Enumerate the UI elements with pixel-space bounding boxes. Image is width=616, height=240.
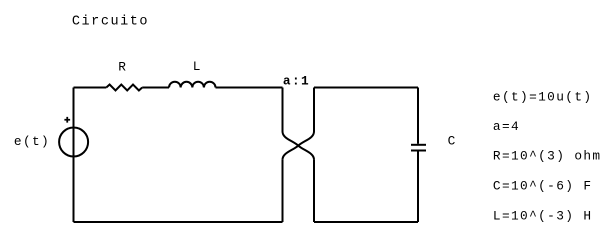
transformer primary top lead — [282, 88, 284, 132]
transformer secondary bottom lead — [313, 160, 315, 222]
svg-text:a:1: a:1 — [283, 74, 310, 89]
wire right vertical above capacitor — [417, 88, 419, 144]
inductor L — [169, 82, 216, 88]
voltage source e(t) — [59, 128, 88, 157]
transformer primary bottom lead — [282, 160, 284, 222]
transformer crossing curve right-top to left-bottom — [283, 132, 315, 160]
svg-text:C=10^(-6) F: C=10^(-6) F — [493, 179, 593, 194]
wire between L and transformer primary — [216, 87, 283, 89]
wire bottom of left loop — [74, 221, 283, 223]
wire top of right loop — [314, 87, 418, 89]
svg-text:R=10^(3) ohm: R=10^(3) ohm — [493, 149, 602, 164]
polarity plus sign — [64, 117, 70, 123]
svg-text:L=10^(-3) H: L=10^(-3) H — [493, 208, 593, 223]
svg-text:e(t)=10u(t): e(t)=10u(t) — [493, 89, 593, 104]
svg-text:a=4: a=4 — [493, 119, 520, 134]
svg-text:Circuito: Circuito — [72, 14, 149, 29]
wire right vertical below capacitor — [417, 152, 419, 223]
wire bottom of right loop — [314, 221, 418, 223]
capacitor C plate bottom — [411, 150, 426, 152]
transformer secondary top lead — [313, 88, 315, 132]
svg-text:C: C — [448, 134, 457, 149]
svg-text:L: L — [193, 59, 202, 74]
resistor R — [106, 85, 142, 91]
wire between R and L — [142, 87, 169, 89]
svg-text:e(t): e(t) — [14, 134, 50, 149]
wire left vertical (source branch) — [73, 88, 75, 223]
capacitor C plate top — [411, 144, 426, 146]
wire top-left segment — [74, 87, 107, 89]
transformer crossing curve left-top to right-bottom — [283, 132, 315, 160]
svg-text:R: R — [118, 59, 127, 74]
